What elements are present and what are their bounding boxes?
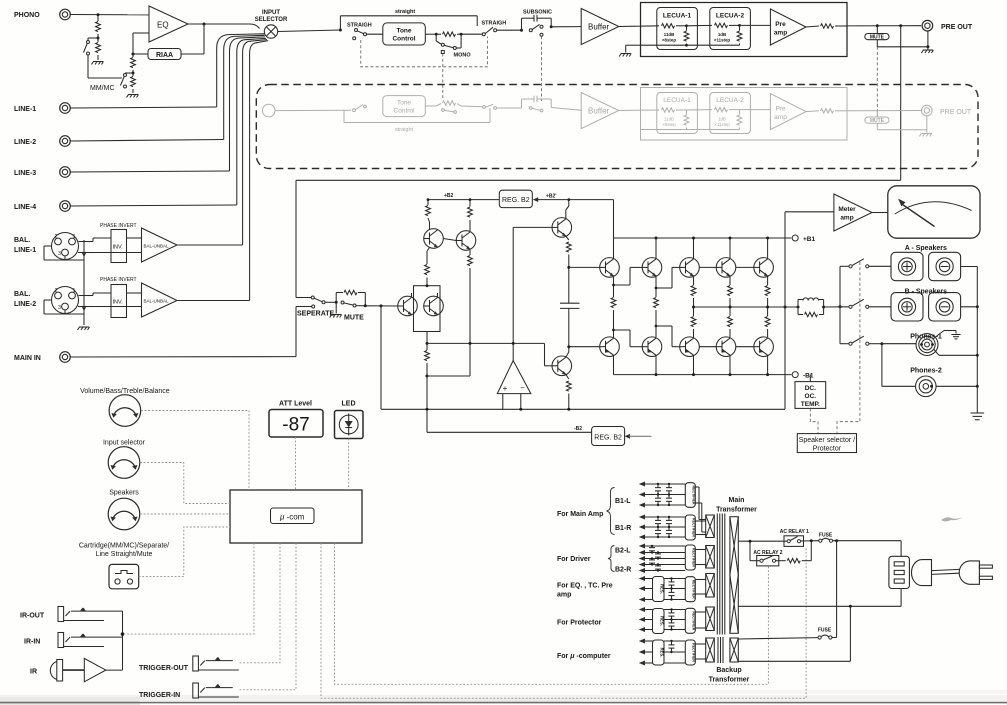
ghost switch straigh 1 [353,105,367,112]
ground pre out [921,50,933,53]
ghost box LECUA-1 [657,93,698,134]
svg-text:+B2': +B2' [546,193,557,199]
wire phones1 to bus [934,349,979,357]
resistor LECUA-1 series [662,24,687,28]
transistor VAS upper [552,218,572,238]
rectifier group 1 wires and arrows [639,482,686,508]
ground phono divider [92,62,104,65]
ghost op-amp Buffer [581,93,619,129]
ghost relay MUTE [865,111,927,130]
switch SEPERATE [296,296,336,308]
svg-text:+B2: +B2 [444,193,454,199]
svg-text:1dB: 1dB [718,32,726,37]
brace driver group [608,546,615,572]
wire EQ output [188,24,260,29]
svg-text:2: 2 [55,288,58,294]
label LECUA-1 steps [662,32,676,43]
node preamp branch [899,24,902,27]
svg-text:Cartridge(MM/MC)/Separate/: Cartridge(MM/MC)/Separate/ [79,543,169,550]
wire ucom to IR [125,543,254,634]
node IR [121,632,125,636]
svg-text:Input selector: Input selector [103,440,146,447]
switch subsonic [529,24,543,36]
indicator LED [335,411,364,439]
svg-text:A - Speakers: A - Speakers [905,245,947,252]
svg-text:2: 2 [55,234,58,240]
node MC [132,72,135,75]
resistor tail upper [425,251,430,275]
node rl right [822,306,825,309]
PHONO input jack [14,9,70,20]
svg-text:For Protector: For Protector [557,620,602,627]
op-amp BAL-UNBAL 1 [142,228,178,262]
wire +B2' down to rail [613,200,615,238]
wire RIAA to EQ inverting input [133,33,149,54]
svg-text:×8step: ×8step [662,38,676,43]
svg-text:RES.: RES. [660,616,665,626]
knob volume [109,395,141,427]
node LECUA-1 bottom [685,44,688,47]
resistor LECUA-2 series [715,23,740,27]
wire selector to straigh switch [278,30,341,32]
svg-text:Control: Control [394,108,416,115]
wire diff bottom to servo line [426,332,553,366]
box Speaker selector Protector [797,434,856,453]
capacitors group 2 [655,516,672,538]
wires rectifier1 to winding1 [695,487,705,532]
svg-text:-87: -87 [282,415,309,436]
capacitors group 3 [649,545,661,572]
LINE-3 input jack [14,167,70,178]
transistor output Q1 top [600,258,620,278]
switch cartridge box [109,564,139,588]
input selector rotary switch [264,25,277,38]
svg-text:×11step: ×11step [714,38,731,43]
terminal A minus [929,252,961,280]
svg-text:11dB: 11dB [664,117,674,122]
ghost wire to box [619,109,659,112]
switch straigh 2 [477,26,496,36]
wire straight bypass [340,16,477,30]
wire straigh2 to subsonic [497,29,522,31]
svg-text:TEMP.: TEMP. [801,401,820,408]
terminal B minus [929,293,961,321]
node subsonic right [550,25,553,28]
resistor below mirror right [468,256,473,344]
wire base rail top Q3-Q5 [699,266,754,268]
bus speaker return [976,267,978,414]
svg-text:LECUA-2: LECUA-2 [716,97,744,104]
nodes top rail [655,237,770,240]
svg-text:amp: amp [774,30,787,37]
emitter resistor Q10 lower [765,307,770,337]
svg-text:INV.: INV. [113,300,124,306]
svg-text:Speakers: Speakers [109,490,139,497]
box RECTIFIER group 6 [685,640,695,665]
wire vas to output bases bottom [567,345,599,348]
node straight tap [339,29,342,32]
MAIN IN jack [14,352,70,363]
svg-text:LINE-4: LINE-4 [14,204,36,211]
svg-text:straight: straight [395,9,415,15]
scan border bottom [0,702,1007,704]
rectifier group 3 wires and arrows [639,544,686,574]
svg-text:INV.: INV. [113,245,124,251]
resistor phono load lower [96,38,101,60]
wire ucom to trigger out [240,543,281,663]
terminal A plus [891,252,923,280]
resistor mute bridge [336,290,365,306]
rail +B1 top [614,238,792,258]
svg-text:-B2: -B2 [574,426,582,432]
emitter resistor Q3 upper [691,276,696,307]
terminal -B1 [792,372,814,380]
svg-text:STRAIGH: STRAIGH [482,21,507,27]
fuse backup [818,635,837,639]
op-amp DC servo [497,361,531,394]
node phones [880,342,883,345]
emitter resistor Q5 upper [765,276,770,307]
svg-text:FUSE: FUSE [819,533,833,539]
svg-text:OC.: OC. [805,393,817,400]
node RIAA lower [132,53,135,56]
wire meter tap [785,212,834,307]
svg-text:For Main Amp: For Main Amp [557,511,603,518]
capacitor miller [560,267,580,346]
svg-text:straight: straight [395,127,414,133]
wire LECUA2 to preamp [740,24,771,26]
svg-text:Transformer: Transformer [709,677,750,684]
wire to diff pair [365,305,397,307]
capacitor subsonic [522,15,552,30]
box RECTIFIER group 1 [685,483,695,508]
ghost jack PRE OUT [922,105,972,116]
op-amp Pre amp [770,9,806,45]
rectifier group 4 wires and arrows [639,576,686,602]
wire feedback to RIAA [181,24,204,54]
svg-text:PRE OUT: PRE OUT [941,24,973,31]
wire VAS collector to rail [566,200,569,219]
op-amp EQ [149,6,188,42]
wire ucom to trigger in [240,543,297,690]
wire buffer to LECUA box [619,25,659,28]
core backup transformer [718,637,723,663]
op-amp BAL-UNBAL 2 [142,283,178,317]
svg-text:11dB: 11dB [664,32,675,37]
box RECTIFIER group 2 [685,515,695,540]
wire XLR shells to ground bus [44,240,86,325]
transistor output Q9 bottom [716,337,736,357]
LINE-4 input jack [14,201,70,212]
wire neutral return [738,589,901,608]
transistor output Q8 bottom [680,337,700,357]
svg-text:PHONO: PHONO [14,12,40,19]
node relay join [810,539,813,542]
svg-text:Tone: Tone [396,28,411,35]
ghost subsonic [522,96,582,112]
svg-text:1: 1 [73,288,76,294]
transistor output Q7 bottom [642,337,662,357]
rail -B1 bottom [614,356,792,375]
jack IR-IN [58,633,104,648]
wire op-amp to VAS base [513,227,552,360]
ghost wire to switch [275,109,351,111]
wire base rail bottom Q8-Q10 [699,346,754,348]
BAL. LINE-2 XLR connector [14,287,79,314]
resistor MC gain upper [131,54,136,73]
node LECUA-1 [685,24,688,27]
svg-text:amp: amp [557,592,571,599]
resistor LECUA-2 shunt [737,25,742,45]
relay MUTE [865,26,928,47]
svg-text:LINE-2: LINE-2 [14,301,36,308]
capacitors group 4 [669,577,675,600]
svg-text:-B1: -B1 [803,373,814,380]
svg-text:BAL.: BAL. [14,237,30,244]
svg-text:×11step: ×11step [714,122,730,127]
jack IR-OUT [58,607,104,622]
box RECTIFIER group 4 [685,577,695,602]
svg-text:LED: LED [342,401,356,408]
svg-text:RES.: RES. [660,584,665,594]
wires rectifier6 to backup winding [695,644,705,659]
core main transformer [717,514,725,635]
transistor output Q5 top [754,258,774,278]
svg-text:MAIN IN: MAIN IN [14,355,41,362]
knob speakers [108,498,140,530]
plug IEC female [912,560,932,586]
wire backup primary neutral [738,606,850,661]
wire fuse to inlet [833,539,902,556]
svg-text:1dB: 1dB [718,117,726,122]
wire ucom to ac relay 1 [321,543,806,698]
node rail left [427,198,430,201]
staircase Q1 to Q2 [612,267,642,286]
wire ucom to ac relay 2 [335,543,769,684]
svg-text:LINE-1: LINE-1 [14,106,36,113]
wire ir-in to node [98,636,123,638]
jack Phones-1 [882,334,938,356]
switch straigh 1 [353,29,383,40]
svg-text:MUTE: MUTE [344,315,364,322]
box DC OC TEMP [795,375,826,409]
svg-text:SEPERATE: SEPERATE [297,311,335,318]
svg-text:IR-IN: IR-IN [24,639,40,646]
svg-text:STRAIGH: STRAIGH [347,23,372,29]
svg-text:INPUT: INPUT [262,10,280,16]
node EQ feedback [203,23,206,26]
jack TRIGGER-OUT [193,656,239,671]
resistor bias Q2 [654,288,659,327]
svg-text:RECTIFIER: RECTIFIER [691,611,695,630]
box INV. 2 [111,285,127,318]
box diff pair [414,286,441,332]
winding secondary 2 [706,546,715,569]
ground phones1 [951,335,960,339]
node mute left [876,24,879,27]
box REG. B2 lower [592,427,625,446]
ghost op-amp Pre amp [740,94,807,130]
rectifier group 6 wires and arrows [639,639,686,666]
wire phones2 to bus [936,385,979,388]
svg-text:For μ -computer: For μ -computer [557,653,611,660]
svg-text:REG. B2: REG. B2 [594,434,622,441]
wire feedback lower [381,306,785,409]
transistor current mirror left [424,229,444,249]
svg-text:RECTIFIER: RECTIFIER [691,518,695,537]
rectifier group 2 wires and arrows [639,515,686,540]
svg-text:RES.: RES. [660,648,665,658]
wire LECUA ground rail [626,45,740,52]
display ATT Level -87 [269,410,323,438]
svg-text:RECTIFIER: RECTIFIER [691,643,695,662]
svg-text:For Driver: For Driver [557,556,591,563]
svg-text:Buffer: Buffer [588,107,610,116]
wire relay1 out [801,540,819,542]
relay AC RELAY 1 [784,536,804,547]
node amp input [364,304,367,307]
node servo cross [512,342,515,345]
svg-text:RIAA: RIAA [156,52,173,59]
wire diff emitters top [412,278,438,298]
winding primary main [730,517,738,634]
meter amp triangle [834,194,888,231]
node lower left [426,375,429,378]
node diff top [426,284,429,287]
ground XLR common [78,327,90,330]
svg-text:LINE-2: LINE-2 [14,139,36,146]
svg-text:Main: Main [729,497,745,504]
box REG. B2 upper [499,190,532,207]
LINE-1 input jack [14,103,70,114]
resistor phono load upper [96,15,101,38]
transistor output Q3 top [680,258,700,278]
jack PRE OUT [922,20,973,31]
ghost ground pre out [919,116,932,137]
transistor VAS lower [552,356,572,376]
ghost box volume outer [641,88,848,141]
svg-text:Pre: Pre [775,21,786,28]
wire LINE-2 to selector [71,35,265,141]
ghost switch straigh 2 [483,104,522,109]
svg-text:1: 1 [73,234,76,240]
wires XLR1 to INV and amp [78,238,142,253]
winding backup secondary [706,638,715,662]
node MM/MC [97,37,100,40]
terminal B plus [891,293,923,321]
box microcomputer [230,490,362,543]
op-amp Buffer [581,9,619,45]
svg-text:LECUA-2: LECUA-2 [716,13,745,20]
staircase Q6 to Q7 [614,330,643,347]
wire preout sleeve to ground [926,31,929,49]
wire speakers to ucom [140,513,230,515]
svg-text:MM/MC: MM/MC [90,85,115,92]
scan smudge bottom strip [0,690,1007,705]
wires XLR2 to INV and amp [78,293,142,307]
wire to speaker relays [824,266,849,343]
svg-text:B2-R: B2-R [615,567,631,574]
svg-text:TRIGGER-OUT: TRIGGER-OUT [139,665,189,672]
svg-text:TRIGGER-IN: TRIGGER-IN [139,692,180,699]
gang link mute [876,47,878,117]
staircase Q2 to Q3 [655,267,680,289]
BAL. LINE-1 XLR connector [14,233,79,260]
label Cartridge switch [79,543,169,559]
svg-text:μ -com: μ -com [279,513,305,522]
box RECTIFIER group 5 [685,608,695,633]
dashed box second channel [256,85,978,169]
ground buffer [619,54,631,57]
ground MC [127,95,139,98]
sensor IR [50,660,84,682]
wire led to ucom [348,439,350,491]
winding secondary 3 [706,574,715,598]
box RES group 5 [653,609,665,634]
LINE-2 input jack [14,136,70,147]
svg-text:REG. B2: REG. B2 [502,197,530,204]
label For EQ TC Pre amp [557,583,613,599]
wire LECUA link [687,24,713,26]
resistor pre out [806,24,847,28]
emitter resistor Q8 lower [691,307,696,337]
label LECUA-2 steps [714,32,731,43]
svg-text:BAL-UNBAL: BAL-UNBAL [144,244,170,249]
svg-text:Meter: Meter [838,206,856,213]
node feedback tap [380,304,383,307]
wire vas to output bases top [567,266,599,269]
node subsonic left [520,29,523,32]
svg-text:LINE-3: LINE-3 [14,170,36,177]
svg-text:PRE OUT: PRE OUT [940,109,972,116]
power cord [932,569,960,574]
wire phones1 ground [934,331,957,339]
network output coil [797,298,824,309]
relay AC RELAY 2 [750,541,779,566]
winding secondary 4 [706,607,715,631]
gang link subsonic [541,36,543,101]
box RES group 6 [653,640,665,665]
transistor output Q10 bottom [754,337,774,357]
relay B speakers [849,299,891,308]
nodes bottom rail [655,373,770,376]
wire A minus to bus [961,266,978,268]
wires rectifier5 to winding4 [695,612,705,628]
switch MUTE main [341,301,365,307]
wire primary hot tap [738,540,787,543]
ghost box Tone Control [383,96,426,117]
svg-text:amp: amp [774,114,787,121]
resistor soft start [776,541,812,563]
gang link mono [442,54,444,100]
resistor MC lower [131,73,136,93]
node mono left [435,33,438,36]
svg-text:BAL-UNBAL: BAL-UNBAL [144,299,170,304]
wire -B2 reg line [427,409,592,432]
wire backup primary hot [738,638,818,639]
svg-text:LECUA-1: LECUA-1 [663,97,691,104]
svg-text:B1-R: B1-R [615,525,631,532]
emitter resistor Q9 lower [728,307,733,337]
ghost box LECUA-2 [710,93,751,134]
svg-text:B1-L: B1-L [615,498,631,505]
wire preout line [847,25,921,27]
svg-text:Line Straight/Mute: Line Straight/Mute [96,551,153,558]
svg-text:SUBSONIC: SUBSONIC [523,10,552,16]
node LECUA-2 [738,24,741,27]
node vas feed [567,198,570,201]
capacitors group 1 [655,483,672,506]
